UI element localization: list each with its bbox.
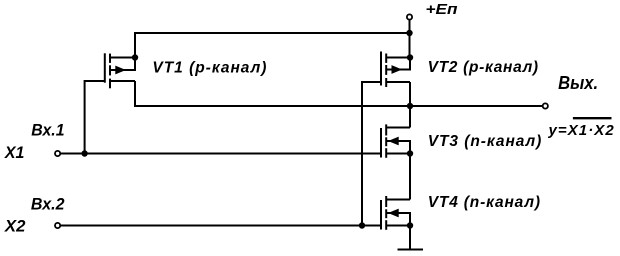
wire X2 input line	[60, 225, 381, 227]
wire output node to VT3 drain	[409, 106, 411, 128]
svg-text:VT2 (р-канал): VT2 (р-канал)	[428, 59, 538, 76]
transistor VT3 (n-channel)	[381, 124, 410, 157]
svg-text:Вх.1: Вх.1	[31, 122, 64, 140]
terminal +En	[407, 14, 412, 33]
node X2 to VT2 gate junction	[359, 222, 365, 228]
terminal input X2	[55, 223, 60, 228]
node supply junction	[406, 30, 412, 36]
wire VT4 source to ground	[409, 226, 411, 250]
svg-text:X2: X2	[4, 216, 26, 235]
terminal output	[543, 103, 548, 108]
ground	[398, 249, 424, 251]
node output junction	[407, 103, 413, 109]
svg-text:Вх.2: Вх.2	[31, 196, 65, 214]
transistor VT4 (n-channel)	[381, 196, 410, 230]
svg-text:Вых.: Вых.	[558, 73, 598, 93]
wire X1 input line	[60, 153, 381, 155]
wire VT3 source to VT4 drain	[409, 154, 411, 200]
wire VT1 gate	[85, 81, 105, 154]
wire VT2 source down to output node	[409, 82, 411, 106]
svg-text:VT4 (n-канал): VT4 (n-канал)	[428, 194, 540, 211]
node VT3 source junction	[407, 150, 413, 156]
wire top supply rail	[135, 33, 410, 58]
svg-text:VT3 (n-канал): VT3 (n-канал)	[428, 133, 542, 150]
wire VT1 source to output line	[135, 81, 543, 106]
overline of formula	[573, 117, 612, 119]
wire VT2 gate	[362, 82, 381, 226]
node VT2 drain junction	[407, 54, 413, 60]
transistor VT1 (p-channel)	[105, 53, 135, 88]
node VT4 source junction	[407, 222, 413, 228]
node X1 to VT1 gate junction	[81, 150, 87, 156]
svg-text:VT1 (р-канал): VT1 (р-канал)	[152, 60, 266, 77]
svg-text:+Еп: +Еп	[426, 1, 458, 18]
wire VT2 drain to rail	[409, 33, 411, 58]
node VT1 drain junction	[132, 54, 138, 60]
svg-text:X1: X1	[4, 143, 24, 162]
transistor VT2 (p-channel)	[381, 52, 410, 88]
terminal input X1	[55, 151, 60, 156]
svg-text:у=X1·X2: у=X1·X2	[548, 122, 615, 139]
